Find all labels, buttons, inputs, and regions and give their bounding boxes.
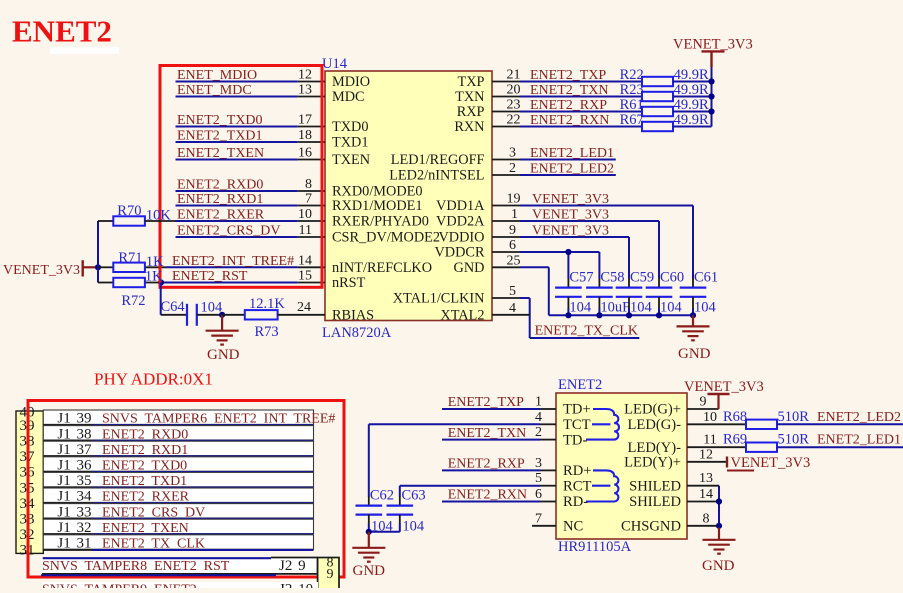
junction node RST/C64 <box>158 279 164 285</box>
svg-text:ENET2 RXD1: ENET2 RXD1 <box>102 443 188 458</box>
pin U14.4 XTAL2 <box>492 314 530 316</box>
svg-text:104: 104 <box>569 300 592 316</box>
svg-text:18: 18 <box>298 128 312 143</box>
svg-text:20: 20 <box>507 83 521 98</box>
row cell 37 <box>43 441 313 455</box>
svg-text:12.1K: 12.1K <box>249 296 285 312</box>
wire net ENET2_TXD1 <box>176 141 298 143</box>
svg-text:ENET2 CRS DV: ENET2 CRS DV <box>102 505 205 520</box>
svg-text:ENET2_TXD1: ENET2_TXD1 <box>177 129 263 144</box>
svg-text:510R: 510R <box>778 409 810 425</box>
svg-text:C59: C59 <box>630 270 654 286</box>
wire VDDCR to C57/C58 <box>520 251 599 253</box>
svg-text:ENET2_CRS_DV: ENET2_CRS_DV <box>177 224 280 239</box>
svg-text:J1 36: J1 36 <box>57 458 92 474</box>
wire net ENET2_RXD1 <box>92 455 314 457</box>
svg-text:R22: R22 <box>620 67 644 83</box>
svg-text:VDD1A: VDD1A <box>436 198 485 214</box>
pin J1.32 <box>43 533 92 535</box>
svg-text:VENET_3V3: VENET_3V3 <box>731 455 811 471</box>
svg-text:CHSGND: CHSGND <box>621 519 681 535</box>
row cell (cut off bottom row) <box>42 582 318 588</box>
svg-text:6: 6 <box>535 487 542 502</box>
svg-text:J1 33: J1 33 <box>57 504 91 520</box>
svg-text:RCT: RCT <box>563 478 591 494</box>
wire net ENET_MDIO <box>176 81 298 83</box>
svg-text:VDDCR: VDDCR <box>434 245 485 261</box>
svg-text:ENET2_LED2: ENET2_LED2 <box>530 162 614 177</box>
svg-text:R73: R73 <box>255 324 279 340</box>
svg-text:R69: R69 <box>723 432 747 448</box>
svg-text:XTAL1/CLKIN: XTAL1/CLKIN <box>393 291 485 307</box>
pin J.4 <box>540 423 556 425</box>
wire net ENET2_RXN <box>442 501 540 503</box>
pin U14.13 <box>298 96 325 98</box>
svg-text:RXER/PHYAD0: RXER/PHYAD0 <box>332 214 429 230</box>
connector J2 row background <box>42 558 318 574</box>
svg-text:14: 14 <box>699 487 713 502</box>
red highlight frame (J1 nets) <box>28 401 344 578</box>
power port VENET_3V3 (RJ45 top) <box>717 394 719 409</box>
pin J.3 <box>540 469 556 471</box>
svg-text:RBIAS: RBIAS <box>332 308 374 324</box>
svg-text:nINT/REFCLKO: nINT/REFCLKO <box>332 260 432 276</box>
svg-text:J1 39: J1 39 <box>57 411 91 427</box>
svg-text:C64: C64 <box>161 299 186 315</box>
svg-text:ENET2_TXP: ENET2_TXP <box>530 68 606 83</box>
pin J.14 SHILED <box>687 501 719 503</box>
wire net ENET2_TX_CLK <box>92 549 314 551</box>
svg-text:25: 25 <box>507 253 521 268</box>
svg-text:104: 104 <box>630 300 653 316</box>
svg-text:VDDIO: VDDIO <box>438 230 484 246</box>
wire VENET_3V3 vertical <box>97 221 99 283</box>
svg-text:LED(Y)-: LED(Y)- <box>628 440 682 456</box>
svg-text:5: 5 <box>509 284 516 299</box>
wire net ENET2_TXN <box>520 96 642 98</box>
svg-text:510R: 510R <box>778 432 810 448</box>
wire RCT to C63 <box>400 485 540 487</box>
pin J1.39 <box>43 424 92 426</box>
svg-text:SNVS TAMPER8 ENET2 RST: SNVS TAMPER8 ENET2 RST <box>42 559 230 574</box>
svg-text:GND: GND <box>678 346 711 362</box>
svg-text:LAN8720A: LAN8720A <box>322 325 392 341</box>
svg-text:ENET2 TX CLK: ENET2 TX CLK <box>102 537 205 552</box>
wire R67 to VENET_3V3 <box>673 126 712 128</box>
pin J.1 <box>540 408 556 410</box>
capacitor C58 10uF <box>598 278 600 288</box>
svg-text:15: 15 <box>298 269 312 284</box>
svg-text:C61: C61 <box>694 270 718 286</box>
svg-text:ENET2_RXP: ENET2_RXP <box>448 457 525 472</box>
pin U14.21 <box>492 81 520 83</box>
svg-text:GND: GND <box>702 558 735 574</box>
svg-text:23: 23 <box>507 98 521 113</box>
svg-text:ENET2_RXER: ENET2_RXER <box>177 208 265 223</box>
svg-text:10K: 10K <box>146 208 172 224</box>
svg-text:4: 4 <box>535 410 542 425</box>
svg-text:SHILED: SHILED <box>629 478 681 494</box>
svg-text:C58: C58 <box>600 270 624 286</box>
junction nodes termination <box>708 78 714 84</box>
junction node VDDCR/C57 <box>565 249 571 255</box>
junction node C64/R73/GND <box>219 312 225 318</box>
svg-text:ENET2_TX_CLK: ENET2_TX_CLK <box>535 324 638 339</box>
wire net ENET2_RXER <box>92 502 314 504</box>
row cell 34 <box>43 488 313 502</box>
row cell 32 <box>43 519 313 533</box>
svg-text:ENET2_RST: ENET2_RST <box>172 269 248 284</box>
svg-text:12: 12 <box>298 68 312 83</box>
red highlight frame (U14 input nets) <box>160 66 322 288</box>
svg-text:R72: R72 <box>121 293 145 309</box>
svg-text:10: 10 <box>298 207 312 222</box>
wire net SNVS_TAMPER8 <box>41 574 276 576</box>
svg-text:ENET2 RXER: ENET2 RXER <box>102 490 190 505</box>
svg-text:9: 9 <box>509 223 516 238</box>
svg-text:12: 12 <box>699 447 713 462</box>
wire termination vertical <box>711 67 713 127</box>
svg-text:ENET2_RXN: ENET2_RXN <box>530 113 609 128</box>
ic U14 LAN8720A body <box>325 71 492 321</box>
pin J1.35 <box>43 487 92 489</box>
svg-text:RD-: RD- <box>563 494 588 510</box>
wire C64 to R73 <box>197 314 222 316</box>
pin U14.20 <box>492 96 520 98</box>
wire R23 to VENET_3V3 <box>673 96 712 98</box>
svg-text:SNVS TAMPER9 ENET2: SNVS TAMPER9 ENET2 <box>42 583 197 589</box>
wire net ENET2_LED1 <box>777 446 903 448</box>
pin U14.15 <box>298 282 325 284</box>
pin J.7 <box>532 525 556 527</box>
pin J1.36 <box>43 471 92 473</box>
svg-text:R61: R61 <box>620 97 644 113</box>
svg-text:8: 8 <box>305 177 312 192</box>
wire net ENET2_TXEN <box>92 533 314 535</box>
wire net ENET2_TXEN <box>176 159 298 161</box>
svg-text:TXP: TXP <box>457 74 484 90</box>
svg-text:VENET_3V3: VENET_3V3 <box>532 192 609 207</box>
pin J1.37 <box>43 455 92 457</box>
svg-text:ENET2 RXD0: ENET2 RXD0 <box>102 427 188 442</box>
wire net ENET2_TXP <box>520 81 642 83</box>
connector J2 body <box>318 558 339 593</box>
wire net VENET_3V3 (pin19) <box>520 205 693 207</box>
wire shield ground <box>718 486 720 529</box>
pin U14.9 <box>492 236 520 238</box>
svg-text:RXP: RXP <box>457 104 485 120</box>
capacitor C59 104 <box>628 278 630 288</box>
svg-text:VDD2A: VDD2A <box>436 214 485 230</box>
pin J.8 CHSGND <box>687 525 719 527</box>
connector ENET2 HR911105A body <box>556 393 687 539</box>
svg-text:J1 35: J1 35 <box>57 473 91 489</box>
svg-text:VENET_3V3: VENET_3V3 <box>673 37 753 53</box>
pin J.9 LED(G)+ <box>687 408 719 410</box>
svg-text:LED2/nINTSEL: LED2/nINTSEL <box>389 168 484 184</box>
svg-text:ENET_MDIO: ENET_MDIO <box>177 68 257 83</box>
wire net J1.30 to J2.8 <box>43 557 271 559</box>
pin U14.7 <box>298 205 325 207</box>
svg-text:5: 5 <box>535 471 542 486</box>
svg-text:TCT: TCT <box>563 417 591 433</box>
svg-text:XTAL2: XTAL2 <box>440 308 484 324</box>
svg-text:TXEN: TXEN <box>332 152 370 168</box>
pin U14.16 <box>298 159 325 161</box>
svg-text:9: 9 <box>327 567 334 582</box>
wire R61 to VENET_3V3 <box>673 111 712 113</box>
wire TCT to C62 <box>369 423 540 425</box>
wire net ENET2_RXD0 <box>176 190 298 192</box>
pin U14.8 <box>298 190 325 192</box>
row cell 36 <box>43 457 313 471</box>
capacitor C61 104 <box>692 278 694 288</box>
power port VENET_3V3 (left) <box>81 260 83 276</box>
wire net ENET2_RXN <box>520 126 642 128</box>
junction nodes cap rail <box>565 312 571 318</box>
wire net ENET2_CRS_DV <box>92 518 314 520</box>
svg-text:2: 2 <box>509 161 516 176</box>
pin J.13 SHILED <box>687 485 719 487</box>
pin U14.19 <box>492 205 520 207</box>
row cell 31 <box>43 535 313 549</box>
pin U14.24 RBIAS <box>278 314 325 316</box>
wire net VENET_3V3 (pin9) <box>520 236 629 238</box>
svg-text:VENET_3V3: VENET_3V3 <box>532 224 609 239</box>
ground GND (cap rail) <box>692 315 694 326</box>
row cell 35 <box>43 472 313 486</box>
svg-text:MDC: MDC <box>332 89 365 105</box>
svg-text:CSR_DV/MODE2: CSR_DV/MODE2 <box>332 230 440 246</box>
pin J1.38 <box>43 440 92 442</box>
svg-text:ENET2: ENET2 <box>558 377 602 393</box>
svg-text:4: 4 <box>509 301 516 316</box>
svg-text:7: 7 <box>305 192 312 207</box>
svg-text:PHY ADDR:0X1: PHY ADDR:0X1 <box>94 370 213 389</box>
svg-text:ENET2_TXEN: ENET2_TXEN <box>177 146 264 161</box>
svg-text:21: 21 <box>507 68 521 83</box>
wire net ENET2_TXN <box>442 439 540 441</box>
wire GND (pin25) <box>520 266 549 268</box>
pin U14.25 <box>492 266 520 268</box>
wire net ENET2_LED2 <box>520 174 616 176</box>
svg-text:R68: R68 <box>723 409 747 425</box>
svg-text:C62: C62 <box>370 488 394 504</box>
svg-text:11: 11 <box>703 433 716 448</box>
pin J.11 LED(Y)- <box>687 446 746 448</box>
pin U14.5 XTAL1 <box>492 297 520 299</box>
capacitor C57 104 <box>567 278 569 288</box>
svg-text:C63: C63 <box>402 488 426 504</box>
winding RD group <box>586 470 618 501</box>
pin U14.17 <box>298 126 325 128</box>
svg-text:1: 1 <box>511 207 518 222</box>
svg-text:24: 24 <box>297 300 311 315</box>
power port VENET_3V3 (pin12) <box>726 457 728 468</box>
wire net ENET2_CRS_DV <box>176 236 298 238</box>
capacitor C60 104 <box>658 278 660 288</box>
wire net ENET2_RXD0 <box>92 440 314 442</box>
pin U14.12 <box>298 81 325 83</box>
svg-text:LED1/REGOFF: LED1/REGOFF <box>391 152 485 168</box>
pin U14.2 <box>492 174 520 176</box>
svg-text:13: 13 <box>699 471 713 486</box>
svg-text:U14: U14 <box>322 56 348 72</box>
svg-text:R67: R67 <box>620 112 644 128</box>
svg-text:14: 14 <box>298 253 312 268</box>
svg-text:R23: R23 <box>620 82 644 98</box>
wire net ENET2_TXD1 <box>92 487 314 489</box>
svg-text:C60: C60 <box>660 270 684 286</box>
svg-text:TXN: TXN <box>455 89 484 105</box>
wire net ENET2_LED2 <box>777 423 903 425</box>
svg-text:22: 22 <box>507 113 521 128</box>
pin J1.34 <box>43 502 92 504</box>
svg-text:ENET2_INT_TREE#: ENET2_INT_TREE# <box>172 254 294 269</box>
svg-text:LED(G)+: LED(G)+ <box>624 402 681 418</box>
svg-text:19: 19 <box>507 192 521 207</box>
svg-text:17: 17 <box>298 113 312 128</box>
wire net SNVS_TAMPER6__ENET2_INT_TREE# <box>92 424 314 426</box>
svg-text:ENET2_RXD0: ENET2_RXD0 <box>177 178 263 193</box>
svg-text:GND: GND <box>353 563 386 579</box>
svg-text:104: 104 <box>402 519 425 535</box>
svg-text:GND: GND <box>207 347 240 363</box>
svg-text:SNVS TAMPER6 ENET2 INT TREE#: SNVS TAMPER6 ENET2 INT TREE# <box>102 412 335 427</box>
pin U14.18 <box>298 141 325 143</box>
svg-text:9: 9 <box>700 395 707 410</box>
pin J.10 LED(G)- <box>687 423 746 425</box>
pin U14.3 <box>492 159 520 161</box>
capacitor C64 104 <box>186 304 188 326</box>
svg-text:ENET2_RXP: ENET2_RXP <box>530 98 607 113</box>
svg-text:ENET2 TXEN: ENET2 TXEN <box>102 521 189 536</box>
svg-text:ENET2_RXN: ENET2_RXN <box>448 488 527 503</box>
wire net ENET_MDC <box>176 96 298 98</box>
svg-text:R71: R71 <box>118 250 142 266</box>
wire RST to C64 <box>160 283 162 315</box>
row cell 38 <box>43 426 313 440</box>
pin U14.22 <box>492 126 520 128</box>
svg-text:104: 104 <box>660 300 683 316</box>
ground GND (under C64) <box>221 315 223 331</box>
wire net ENET2_TXD0 <box>176 126 298 128</box>
resistor R73 12.1K <box>222 314 245 316</box>
wire net ENET2_RST <box>161 282 298 284</box>
wire net ENET2_TX_CLK <box>520 297 530 299</box>
svg-text:8: 8 <box>703 511 710 526</box>
ground GND (under C62/C63) <box>368 532 370 548</box>
svg-text:TXD0: TXD0 <box>332 119 369 135</box>
svg-text:J1 38: J1 38 <box>57 426 91 442</box>
svg-text:ENET2: ENET2 <box>12 14 112 49</box>
svg-text:11: 11 <box>299 223 312 238</box>
svg-text:TD-: TD- <box>563 432 587 448</box>
wire R22 to VENET_3V3 <box>673 81 712 83</box>
resistor R71 1K <box>98 266 113 268</box>
svg-text:16: 16 <box>298 146 312 161</box>
pin J2.9 <box>42 573 318 575</box>
svg-text:MDIO: MDIO <box>332 74 370 90</box>
ground GND (RJ45) <box>718 528 720 540</box>
pin U14.6 <box>492 251 520 253</box>
pin J.5 <box>540 485 556 487</box>
svg-text:nRST: nRST <box>332 275 366 291</box>
svg-text:RXD1/MODE1: RXD1/MODE1 <box>332 198 423 214</box>
svg-text:R70: R70 <box>117 203 141 219</box>
wire net ENET2_RXER <box>176 220 298 222</box>
junction node C62/C63/GND <box>366 529 372 535</box>
svg-text:ENET2_TXD0: ENET2_TXD0 <box>177 113 263 128</box>
svg-text:LED(G)-: LED(G)- <box>628 417 682 433</box>
pin J.2 <box>540 439 556 441</box>
svg-text:TD+: TD+ <box>563 402 591 418</box>
svg-text:ENET_MDC: ENET_MDC <box>177 83 252 98</box>
row cell 33 <box>43 504 313 518</box>
svg-text:TXD1: TXD1 <box>332 135 369 151</box>
pin U14.10 <box>298 220 325 222</box>
wire net ENET2_RXP <box>520 111 642 113</box>
pin U14.11 <box>298 236 325 238</box>
svg-text:ENET2_RXD1: ENET2_RXD1 <box>177 192 263 207</box>
svg-text:ENET2 TXD1: ENET2 TXD1 <box>102 474 187 489</box>
pin J.6 <box>540 501 556 503</box>
wire net ENET2_INT_TREE# <box>166 266 298 268</box>
svg-text:7: 7 <box>535 511 542 526</box>
svg-text:J2 10: J2 10 <box>279 582 313 589</box>
svg-text:10uF: 10uF <box>600 300 630 316</box>
resistor R70 10K <box>98 220 113 222</box>
svg-text:10: 10 <box>703 410 717 425</box>
svg-text:GND: GND <box>454 260 485 276</box>
svg-text:VENET_3V3: VENET_3V3 <box>684 379 764 395</box>
svg-text:1K: 1K <box>145 269 163 285</box>
svg-text:J2 9: J2 9 <box>279 558 306 574</box>
svg-text:13: 13 <box>298 83 312 98</box>
svg-text:SHILED: SHILED <box>629 494 681 510</box>
junction node VENET_3V3 <box>95 264 101 270</box>
pin J1.31 <box>43 549 92 551</box>
svg-text:1: 1 <box>535 395 542 410</box>
svg-text:VENET_3V3: VENET_3V3 <box>3 263 80 278</box>
svg-text:HR911105A: HR911105A <box>558 539 632 555</box>
wire net ENET2_TXP <box>442 408 540 410</box>
svg-text:LED(Y)+: LED(Y)+ <box>624 455 681 471</box>
capacitor C62 104 <box>368 496 370 506</box>
svg-text:3: 3 <box>535 456 542 471</box>
svg-text:VENET_3V3: VENET_3V3 <box>532 208 609 223</box>
pin J.12 LED(Y)+ <box>687 461 726 463</box>
svg-text:2: 2 <box>535 425 542 440</box>
pin U14.23 <box>492 111 520 113</box>
wire net ENET2_RXD1 <box>176 205 298 207</box>
svg-text:J1 34: J1 34 <box>57 489 92 505</box>
row cell 39 <box>43 410 313 424</box>
svg-text:ENET2 TXD0: ENET2 TXD0 <box>102 459 187 474</box>
wire net ENET2_RXP <box>442 469 540 471</box>
svg-text:ENET2_TXP: ENET2_TXP <box>448 395 524 410</box>
svg-text:ENET2_LED1: ENET2_LED1 <box>817 433 901 448</box>
capacitor C63 104 <box>399 496 401 506</box>
pin J1.33 <box>43 518 92 520</box>
svg-text:ENET2_TXN: ENET2_TXN <box>448 426 527 441</box>
svg-text:RD+: RD+ <box>563 463 592 479</box>
wire net ENET2_TXD0 <box>92 471 314 473</box>
svg-text:C57: C57 <box>569 270 593 286</box>
svg-text:J1 31: J1 31 <box>57 536 91 552</box>
resistor R72 1K <box>98 282 113 284</box>
wire net VENET_3V3 (pin1) <box>520 220 659 222</box>
